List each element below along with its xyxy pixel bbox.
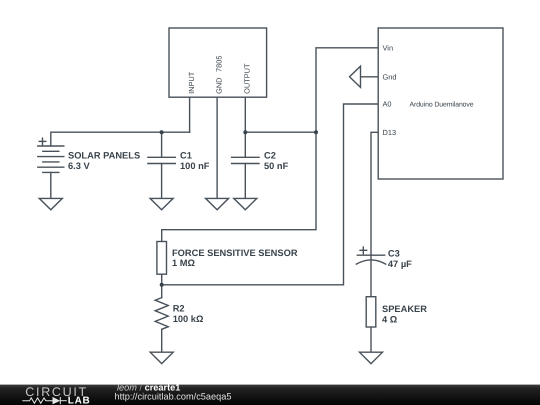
svg-text:47 µF: 47 µF bbox=[388, 259, 412, 269]
wire C2 bottom to ground bbox=[244, 164, 246, 199]
CircuitLab logo resistor+diode symbol bbox=[22, 397, 67, 404]
battery V1 SOLAR PANELS bbox=[38, 146, 64, 172]
wire C1 bottom to ground bbox=[161, 164, 163, 199]
wire Vin line from Arduino through node C down to FSS top bbox=[162, 48, 379, 242]
node B junction dot bbox=[243, 130, 247, 134]
regulator U2 7805 box bbox=[169, 28, 267, 97]
svg-text:6.3 V: 6.3 V bbox=[68, 161, 91, 171]
wire battery bottom to ground bbox=[50, 172, 52, 198]
wire node B rail to node C bbox=[245, 131, 316, 133]
node C junction dot bbox=[314, 130, 318, 134]
svg-text:C3: C3 bbox=[388, 248, 400, 258]
svg-text:OUTPUT: OUTPUT bbox=[243, 63, 252, 94]
svg-text:D13: D13 bbox=[383, 128, 397, 137]
svg-text:FORCE SENSITIVE SENSOR: FORCE SENSITIVE SENSOR bbox=[172, 248, 298, 258]
wire C1 top stub bbox=[161, 132, 163, 157]
ground for speaker bbox=[360, 352, 383, 363]
svg-text:Arduino Duemilanove: Arduino Duemilanove bbox=[410, 101, 474, 108]
ground for C2 bbox=[234, 198, 257, 209]
ground for battery bbox=[39, 198, 62, 209]
svg-text:GND: GND bbox=[214, 77, 223, 93]
svg-text:R2: R2 bbox=[173, 303, 185, 313]
capacitor C3 polarized bbox=[356, 255, 385, 264]
ground for C1 bbox=[150, 198, 173, 209]
svg-text:4 Ω: 4 Ω bbox=[382, 315, 398, 325]
svg-text:Gnd: Gnd bbox=[383, 72, 397, 81]
wire OUTPUT pin of U2 down through node B to C2 bbox=[244, 97, 246, 157]
resistor R2 zigzag bbox=[155, 298, 168, 330]
wire battery top to node A rail bbox=[51, 132, 190, 146]
wire Gnd pin of Arduino to arrow bbox=[361, 76, 379, 78]
node A junction dot bbox=[160, 130, 164, 134]
C3 plus sign bbox=[360, 247, 367, 254]
capacitor C2 plates bbox=[232, 157, 259, 163]
ground for R2 bbox=[150, 352, 173, 363]
capacitor C1 plates bbox=[148, 157, 175, 163]
svg-text:http://circuitlab.com/c5aeqa5: http://circuitlab.com/c5aeqa5 bbox=[115, 392, 232, 402]
battery plus sign bbox=[39, 138, 46, 145]
svg-text:LAB: LAB bbox=[68, 396, 91, 405]
wire INPUT pin of U2 down to rail bbox=[189, 97, 191, 132]
wire FSS bottom to node D bbox=[161, 274, 163, 297]
wire D13 of Arduino down to C3 bbox=[371, 132, 378, 255]
Arduino U1 box bbox=[378, 28, 503, 179]
svg-text:100 nF: 100 nF bbox=[180, 161, 210, 171]
svg-text:100 kΩ: 100 kΩ bbox=[173, 314, 204, 324]
wire R2 bottom to ground bbox=[161, 329, 163, 352]
resistor FSS FORCE SENSITIVE SENSOR box bbox=[157, 242, 167, 275]
wire speaker bottom to ground bbox=[370, 327, 372, 352]
speaker SPK1 box bbox=[366, 297, 376, 327]
svg-text:7805: 7805 bbox=[214, 56, 223, 72]
svg-text:50 nF: 50 nF bbox=[264, 161, 289, 171]
wire node D to A0 of Arduino bbox=[162, 104, 379, 285]
wire C3 bottom to speaker bbox=[370, 255, 372, 297]
svg-text:SOLAR PANELS: SOLAR PANELS bbox=[68, 151, 140, 161]
svg-text:SPEAKER: SPEAKER bbox=[382, 304, 427, 314]
svg-text:INPUT: INPUT bbox=[187, 71, 196, 94]
node D junction dot bbox=[160, 283, 164, 287]
svg-text:1 MΩ: 1 MΩ bbox=[172, 258, 195, 268]
wire GND pin of U2 down to ground bbox=[216, 97, 218, 198]
ground arrow at Arduino Gnd bbox=[350, 66, 361, 87]
svg-text:C2: C2 bbox=[264, 151, 276, 161]
ground for U2 GND bbox=[206, 198, 229, 209]
svg-text:Vin: Vin bbox=[383, 43, 394, 52]
svg-text:C1: C1 bbox=[180, 151, 192, 161]
svg-text:A0: A0 bbox=[383, 100, 392, 109]
